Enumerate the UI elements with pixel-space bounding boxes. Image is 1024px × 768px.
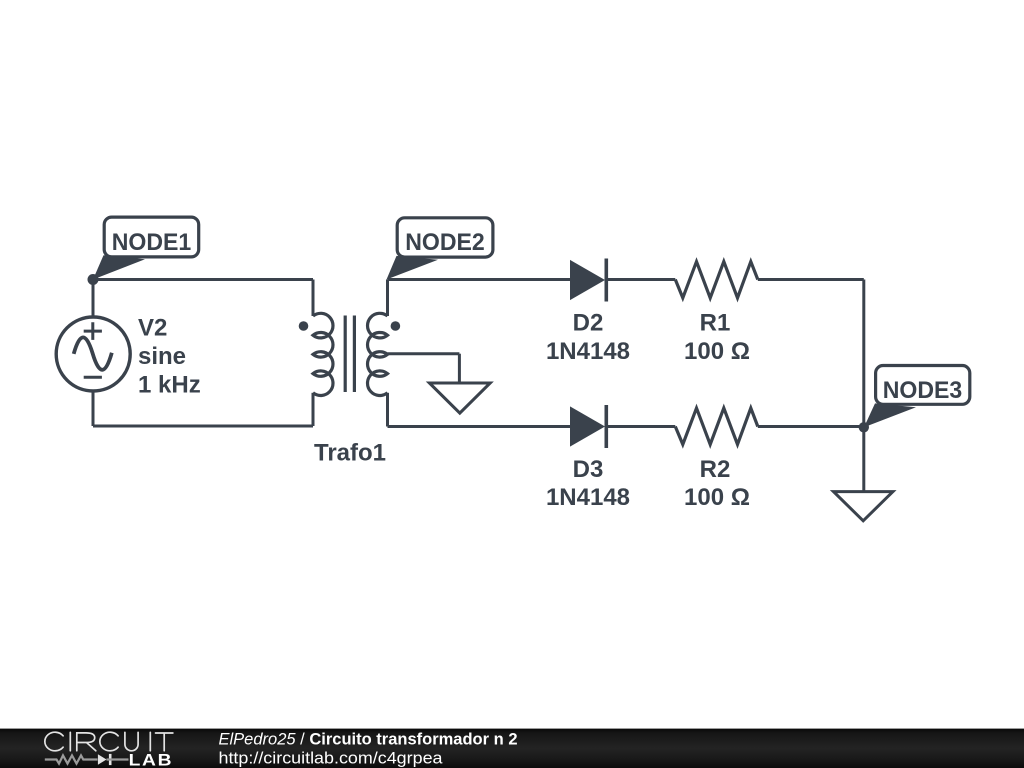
transformer Trafo1 secondary winding <box>368 313 388 395</box>
footer bar <box>0 729 1024 768</box>
callout NODE3 <box>864 366 970 428</box>
label D2 1N4148 <box>546 310 630 365</box>
wire: secondary bottom rail to diode D3 <box>388 425 571 428</box>
label R2 100 ohm <box>684 456 750 511</box>
wire: diode D2 to resistor R1 <box>607 278 676 281</box>
resistor R1 <box>675 262 758 298</box>
svg-text:100 Ω: 100 Ω <box>684 338 750 365</box>
CircuitLab logo wordmark CIRCUIT (thin geometric strokes) <box>45 732 173 751</box>
resistor R2 <box>675 408 758 444</box>
node NODE1 junction dot <box>88 274 99 285</box>
polarity dot primary <box>299 321 309 331</box>
label R1 100 ohm <box>684 310 750 365</box>
voltage source V2 <box>56 317 130 391</box>
svg-text:NODE3: NODE3 <box>883 377 963 404</box>
wire: primary bottom vertical <box>312 393 315 426</box>
wire: center tap vertical to ground <box>458 354 461 382</box>
value label V2 sine 1 kHz <box>138 315 201 399</box>
label D3 1N4148 <box>546 456 630 511</box>
svg-text:D2: D2 <box>573 310 604 337</box>
svg-text:NODE1: NODE1 <box>112 229 192 256</box>
wire: NODE3 junction to ground <box>862 427 865 491</box>
svg-text:D3: D3 <box>573 456 604 483</box>
callout NODE2 <box>387 218 493 280</box>
transformer Trafo1 primary winding <box>313 313 333 395</box>
CircuitLab logo resistor-diode squiggle <box>45 754 129 765</box>
wire: V2 bottom lead <box>92 391 95 426</box>
wire: bottom-left rail <box>93 425 313 428</box>
svg-text:LAB: LAB <box>129 750 174 768</box>
callout NODE1 <box>93 217 199 279</box>
wire: resistor R1 to right rail <box>758 278 864 281</box>
svg-text:1N4148: 1N4148 <box>546 338 630 365</box>
wire: NODE1 to transformer primary top rail <box>93 278 313 281</box>
node NODE3 junction dot <box>859 422 869 432</box>
svg-text:ElPedro25 / Circuito transform: ElPedro25 / Circuito transformador n 2 <box>219 731 518 749</box>
ground (NODE3) <box>834 492 893 521</box>
wire: right rail vertical down to NODE3 <box>862 280 865 428</box>
transformer core <box>345 316 354 393</box>
wire: V2 top lead <box>92 280 95 318</box>
svg-text:sine: sine <box>138 343 186 370</box>
ground (center tap) <box>429 383 490 413</box>
svg-text:NODE2: NODE2 <box>405 229 485 256</box>
diode D2 <box>570 259 606 302</box>
svg-text:R2: R2 <box>700 456 731 483</box>
svg-text:Trafo1: Trafo1 <box>314 440 386 467</box>
diode D3 <box>570 405 606 448</box>
svg-text:http://circuitlab.com/c4grpea: http://circuitlab.com/c4grpea <box>219 749 444 768</box>
wire: resistor R2 to NODE3 junction <box>758 425 864 428</box>
polarity dot secondary <box>391 321 401 331</box>
wire: secondary top vertical <box>386 280 389 317</box>
wire: center tap horizontal <box>388 352 460 355</box>
wire: primary top vertical <box>312 280 315 317</box>
svg-text:R1: R1 <box>700 310 731 337</box>
svg-text:V2: V2 <box>138 315 167 342</box>
wire: secondary bottom vertical <box>386 393 389 427</box>
svg-text:1 kHz: 1 kHz <box>138 372 201 399</box>
wire: diode D3 to resistor R2 <box>607 425 676 428</box>
wire: NODE2 corner to diode D2 <box>388 278 571 281</box>
svg-text:1N4148: 1N4148 <box>546 484 630 511</box>
svg-text:100 Ω: 100 Ω <box>684 484 750 511</box>
